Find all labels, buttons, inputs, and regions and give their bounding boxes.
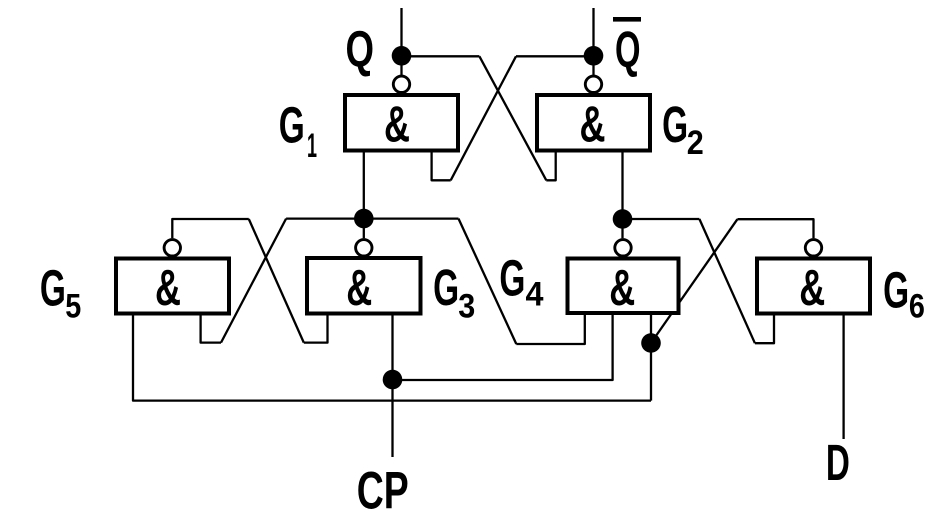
label: gate designator G3: [433, 259, 475, 325]
svg-text:G: G: [279, 97, 305, 154]
svg-text:5: 5: [65, 287, 81, 325]
svg-text:D: D: [826, 434, 850, 491]
wire: diagonal G5 output to G3 input: [249, 219, 304, 343]
wire: G5 bottom-right input hook: [201, 316, 221, 343]
junction dot: G4 output node: [613, 209, 633, 229]
NAND gate G6 (box): [757, 259, 870, 316]
junction dot: G6 output / G4 input node: [641, 333, 661, 353]
svg-text:&: &: [580, 96, 606, 153]
svg-text:G: G: [499, 249, 525, 306]
junction dot: G3 output node: [354, 209, 374, 229]
svg-text:2: 2: [687, 124, 704, 162]
svg-text:G: G: [433, 259, 459, 316]
junction dot: CP node: [383, 370, 403, 390]
output bubble of G5: [164, 240, 180, 256]
wire: G2 bottom-left input hook: [546, 153, 555, 181]
junction dot: node Q: [392, 46, 412, 66]
output bubble of G2: [585, 76, 601, 92]
output bubble of G4: [615, 240, 631, 256]
wire: G6 output feedback bus to G5 left input: [133, 316, 651, 401]
NAND gate G5 (box): [116, 259, 229, 316]
wire: G3 bottom-left input hook: [304, 316, 328, 343]
svg-text:&: &: [799, 259, 825, 316]
wire: G3 output node to left cross-coupling (horizontal): [286, 217, 364, 219]
svg-text:G: G: [883, 262, 909, 319]
wire: G4 output node to right cross-coupling (horizontal): [623, 218, 700, 220]
label: gate designator G5: [40, 260, 81, 326]
label: node Qbar (Q with overbar): [613, 17, 641, 78]
output bubble of G6: [805, 240, 821, 256]
wire: G3 output node to G4 input (horizontal right): [364, 217, 459, 219]
wire: diagonal G4 output to G6 input: [699, 219, 755, 343]
wire: D input lead: [842, 316, 844, 440]
NAND gate G3 (box): [307, 258, 421, 316]
svg-text:&: &: [155, 259, 181, 316]
svg-text:G: G: [662, 96, 688, 153]
wire: G4 right input drop (vertical through junction): [650, 315, 652, 401]
wire: G6 bottom-left input hook: [755, 316, 774, 344]
svg-text:&: &: [346, 259, 372, 316]
wire: G1 bottom input from G3 output (vertical): [363, 153, 365, 239]
svg-text:4: 4: [526, 276, 544, 314]
svg-text:3: 3: [458, 287, 475, 325]
wire: G6 output elbow up and left: [737, 219, 813, 238]
wire: G4 bottom-left input riser: [516, 315, 585, 344]
wire: Qbar output lead (top, into node Qbar): [592, 8, 594, 75]
wire: Q output lead (top, into node Q): [400, 8, 402, 75]
label: gate designator G4: [499, 249, 543, 313]
label: gate designator G2: [662, 96, 704, 162]
svg-text:&: &: [609, 259, 635, 316]
wire: G1 bottom-right input hook: [432, 153, 451, 181]
NAND gate G2 (box): [537, 95, 650, 153]
svg-text:&: &: [384, 96, 410, 153]
wire: G2 bottom input from G4 output (vertical): [621, 153, 623, 239]
svg-text:G: G: [40, 260, 66, 317]
wire: G3 CP input lead (vertical through CP node): [391, 316, 393, 458]
wire: diagonal Qbar feedback to G1 input: [451, 56, 516, 180]
output bubble of G3: [356, 240, 372, 256]
svg-text:1: 1: [307, 127, 317, 165]
svg-text:6: 6: [909, 288, 925, 326]
output bubble of G1: [393, 76, 409, 92]
junction dot: node Qbar: [584, 46, 604, 66]
svg-text:Q: Q: [615, 21, 641, 78]
wire: long diagonal G3 output to G4 left input: [459, 219, 517, 344]
label: gate designator G1: [279, 97, 317, 165]
wire: diagonal Q feedback to G2 input: [479, 56, 546, 180]
wire: node Q to top cross-coupling (horizontal): [402, 55, 480, 57]
svg-text:Q: Q: [346, 21, 375, 78]
NAND gate G1 (box): [345, 95, 458, 153]
wire: node Qbar to top cross-coupling (horizontal): [516, 55, 594, 57]
wire: CP node to G4 middle input: [393, 315, 613, 380]
wire: diagonal G6 output to G4 input junction: [651, 219, 737, 343]
svg-text:CP: CP: [357, 461, 409, 520]
wire: diagonal G3 output to G5 input: [221, 219, 286, 343]
wire: G5 output elbow up and right: [172, 219, 249, 238]
label: gate designator G6: [883, 262, 925, 326]
NAND gate G4 (box): [568, 259, 679, 316]
